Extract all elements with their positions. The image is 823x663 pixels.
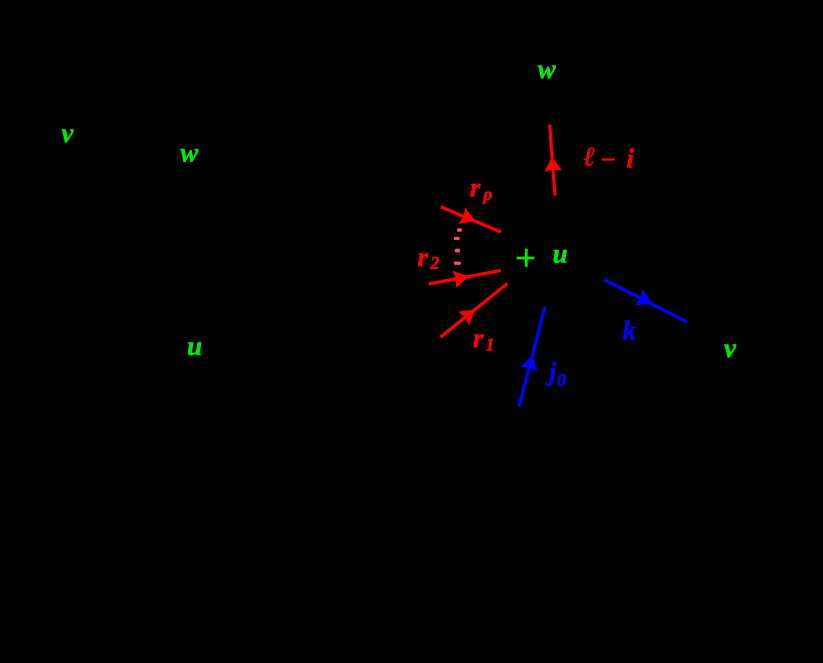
svg-text:r: r xyxy=(473,323,484,353)
svg-text:i: i xyxy=(627,144,635,174)
svg-text:−: − xyxy=(600,144,616,174)
svg-text:2: 2 xyxy=(429,253,439,273)
svg-text:ρ: ρ xyxy=(482,184,492,204)
svg-text:u: u xyxy=(187,331,202,361)
svg-text:u: u xyxy=(553,238,568,268)
svg-text:w: w xyxy=(180,138,199,168)
svg-text:v: v xyxy=(724,333,737,363)
svg-text:r: r xyxy=(418,242,429,272)
svg-text:ℓ: ℓ xyxy=(584,141,596,171)
svg-text:0: 0 xyxy=(557,370,566,390)
svg-text:1: 1 xyxy=(486,334,495,354)
svg-text:w: w xyxy=(538,54,557,84)
svg-text:r: r xyxy=(470,172,481,202)
svg-text:k: k xyxy=(623,316,637,346)
svg-text:v: v xyxy=(61,118,74,148)
